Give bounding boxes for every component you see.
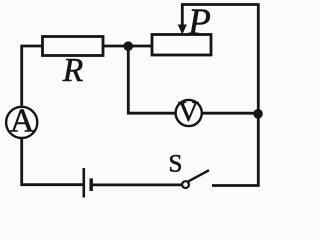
svg-text:A: A (10, 103, 35, 140)
svg-text:R: R (62, 52, 83, 89)
svg-text:V: V (178, 96, 199, 128)
svg-text:S: S (169, 151, 183, 178)
svg-text:P: P (187, 2, 211, 43)
